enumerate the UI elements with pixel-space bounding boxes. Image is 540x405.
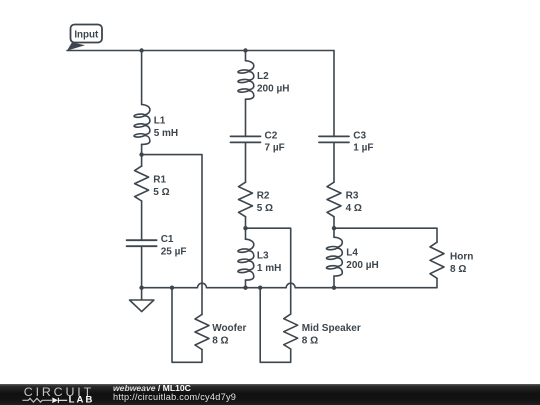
wire mid tap bbox=[246, 228, 291, 362]
node Input flag bbox=[67, 25, 102, 51]
junction ground bus / mid return bbox=[258, 286, 262, 290]
svg-text:R3: R3 bbox=[346, 190, 359, 201]
junction R2-L3 / mid tap bbox=[243, 226, 247, 230]
junction ground bus / woofer return bbox=[170, 286, 174, 290]
svg-text:L3: L3 bbox=[257, 251, 269, 262]
resistor R2 bbox=[239, 182, 253, 216]
wire bottom bus with hops bbox=[142, 283, 334, 288]
svg-text:7 µF: 7 µF bbox=[265, 143, 285, 154]
svg-text:200 µH: 200 µH bbox=[346, 260, 378, 271]
svg-text:5 Ω: 5 Ω bbox=[153, 187, 169, 198]
junction ground bus / L4 bbox=[332, 286, 336, 290]
junction L1-R1 / woofer tap bbox=[139, 152, 143, 156]
footer bar bbox=[0, 384, 540, 405]
resistor Horn bbox=[430, 242, 444, 278]
svg-text:4 Ω: 4 Ω bbox=[346, 203, 362, 214]
svg-text:L4: L4 bbox=[346, 248, 358, 259]
svg-text:Woofer: Woofer bbox=[212, 323, 246, 334]
svg-text:L2: L2 bbox=[257, 71, 269, 82]
capacitor C3 bbox=[319, 136, 349, 142]
svg-text:L1: L1 bbox=[154, 115, 166, 126]
resistor Woofer bbox=[195, 314, 209, 349]
svg-text:Horn: Horn bbox=[450, 251, 473, 262]
svg-text:8 Ω: 8 Ω bbox=[450, 264, 466, 275]
svg-text:8 Ω: 8 Ω bbox=[212, 336, 228, 347]
wire top bus bbox=[67, 50, 334, 52]
svg-text:R1: R1 bbox=[153, 175, 166, 186]
svg-text:25 µF: 25 µF bbox=[161, 247, 187, 258]
ground bbox=[130, 288, 154, 312]
svg-text:1 mH: 1 mH bbox=[257, 263, 281, 274]
wire horn tap bbox=[334, 228, 437, 288]
junction ground bus / L3 bbox=[243, 286, 247, 290]
junction top bus / L1 bbox=[139, 48, 143, 52]
inductor L4 bbox=[326, 237, 342, 276]
junction top bus / L2 bbox=[243, 48, 247, 52]
svg-text:LAB: LAB bbox=[69, 394, 95, 405]
capacitor C2 bbox=[231, 136, 261, 142]
wire woofer tap bbox=[142, 155, 202, 363]
svg-text:5 mH: 5 mH bbox=[154, 128, 178, 139]
junction ground bus / C1 bbox=[139, 286, 143, 290]
footer credit text bbox=[113, 384, 236, 401]
resistor R3 bbox=[327, 182, 341, 216]
wire right column bbox=[333, 51, 335, 288]
svg-text:C3: C3 bbox=[353, 130, 366, 141]
svg-text:200 µH: 200 µH bbox=[257, 83, 289, 94]
inductor L2 bbox=[238, 61, 254, 100]
resistor Mid Speaker bbox=[284, 314, 298, 349]
svg-text:R2: R2 bbox=[257, 190, 270, 201]
svg-text:Input: Input bbox=[74, 29, 99, 40]
junction R3-L4 / horn tap bbox=[332, 226, 336, 230]
CircuitLab logo bbox=[22, 384, 97, 405]
svg-text:8 Ω: 8 Ω bbox=[302, 335, 318, 346]
capacitor C1 bbox=[127, 240, 157, 246]
inductor L3 bbox=[238, 239, 254, 280]
svg-text:C1: C1 bbox=[161, 234, 174, 245]
svg-text:1 µF: 1 µF bbox=[353, 143, 373, 154]
svg-text:C2: C2 bbox=[265, 130, 278, 141]
resistor R1 bbox=[135, 166, 149, 201]
svg-text:5 Ω: 5 Ω bbox=[257, 203, 273, 214]
wire middle column bbox=[245, 51, 247, 288]
svg-text:Mid Speaker: Mid Speaker bbox=[302, 323, 361, 334]
inductor L1 bbox=[134, 105, 150, 145]
wire left column bbox=[141, 51, 143, 288]
